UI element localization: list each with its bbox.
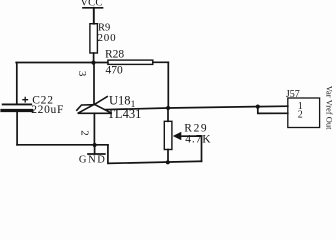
connector J57 <box>256 89 320 128</box>
resistor R9 <box>90 22 117 62</box>
svg-text:GND: GND <box>79 154 107 165</box>
svg-text:R28: R28 <box>105 48 124 60</box>
wire left rail lower <box>16 111 18 145</box>
wire node A horizontal <box>16 62 108 64</box>
wiper arrow <box>173 132 182 141</box>
potentiometer R29 <box>164 108 211 162</box>
wire TL431 cathode <box>93 63 95 105</box>
wire ground bus jog down <box>108 145 202 164</box>
wire TL431 anode down <box>93 113 95 145</box>
cathode bar with bent ends <box>77 105 95 111</box>
svg-text:200: 200 <box>98 32 117 44</box>
wire R28 right down to REF node <box>167 62 169 108</box>
svg-text:3: 3 <box>76 71 88 77</box>
anode triangle <box>78 104 112 113</box>
svg-text:J57: J57 <box>286 89 300 100</box>
svg-text:2: 2 <box>78 130 90 136</box>
ground GND <box>79 143 107 165</box>
svg-text:4.7K: 4.7K <box>185 134 211 146</box>
wire ground bus left <box>17 144 108 146</box>
junction dot REF node <box>166 106 170 110</box>
junction dot R29 bottom <box>166 160 170 164</box>
capacitor C22 <box>2 95 64 116</box>
svg-text:U18: U18 <box>109 93 131 107</box>
svg-text:Var Vref Out: Var Vref Out <box>325 86 335 130</box>
resistor R28 <box>105 48 168 76</box>
junction dot J57 <box>256 105 260 109</box>
wire left rail upper <box>16 63 18 104</box>
svg-text:220uF: 220uF <box>31 104 64 116</box>
svg-text:470: 470 <box>106 64 124 76</box>
wire REF line to J57 pin 1 <box>106 106 288 109</box>
pin 2 stub <box>258 107 288 114</box>
node A junction dot <box>91 61 95 65</box>
power symbol VCC <box>80 0 102 24</box>
shunt regulator U18 TL431 <box>77 93 142 121</box>
svg-text:2: 2 <box>298 109 303 120</box>
